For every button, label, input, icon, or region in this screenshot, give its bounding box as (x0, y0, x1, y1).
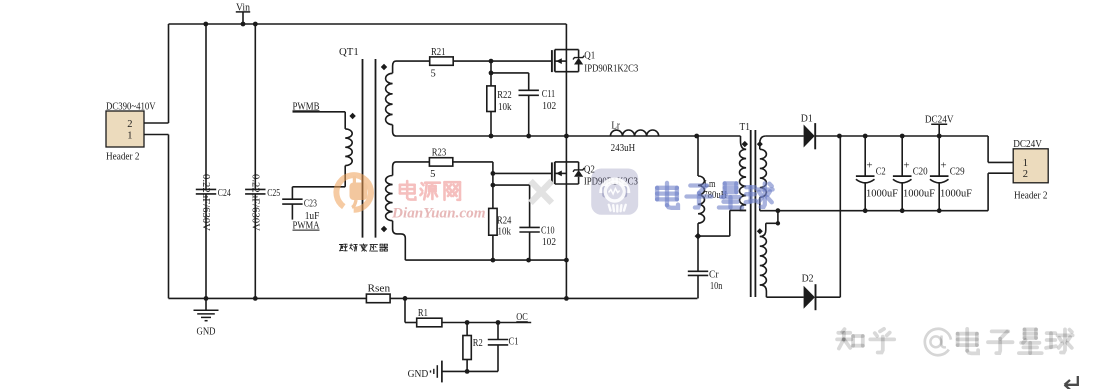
svg-text:R24: R24 (497, 215, 512, 226)
svg-text:0.22uF/630V: 0.22uF/630V (200, 174, 211, 232)
svg-text:C11: C11 (542, 89, 556, 100)
svg-text:5: 5 (431, 69, 436, 80)
svg-text:+: + (903, 159, 909, 171)
svg-text:QT1: QT1 (339, 47, 359, 58)
svg-text:R2: R2 (473, 338, 483, 349)
svg-text:C23: C23 (304, 199, 317, 210)
svg-text:1: 1 (127, 131, 132, 142)
svg-text:Q1: Q1 (584, 51, 595, 62)
svg-text:T1: T1 (740, 122, 750, 133)
svg-text:10k: 10k (498, 102, 512, 113)
svg-text:GND: GND (408, 369, 429, 380)
svg-text:DC390~410V: DC390~410V (106, 101, 156, 112)
svg-text:OC: OC (516, 312, 528, 323)
svg-text:R21: R21 (431, 47, 446, 58)
svg-text:D1: D1 (801, 114, 813, 125)
svg-text:Cr: Cr (709, 269, 719, 280)
svg-text:PWMB: PWMB (293, 101, 320, 112)
svg-text:2: 2 (127, 119, 132, 130)
svg-text:Header 2: Header 2 (1014, 190, 1048, 201)
svg-text:Lr: Lr (611, 121, 620, 132)
svg-text:DC24V: DC24V (1013, 139, 1042, 150)
svg-text:R23: R23 (432, 147, 447, 158)
svg-text:0.22uF/630V: 0.22uF/630V (250, 174, 261, 232)
svg-text:1: 1 (1023, 158, 1028, 169)
svg-text:Rsen: Rsen (368, 283, 391, 294)
svg-text:1000uF: 1000uF (940, 189, 972, 200)
svg-text:10k: 10k (498, 227, 512, 238)
svg-text:R22: R22 (497, 90, 512, 101)
svg-text:2: 2 (1023, 169, 1028, 180)
svg-text:+: + (940, 159, 946, 171)
svg-text:C2: C2 (876, 166, 886, 177)
svg-text:243uH: 243uH (611, 143, 636, 154)
svg-text:Header 2: Header 2 (106, 152, 140, 163)
svg-text:PWMA: PWMA (293, 221, 320, 232)
svg-text:D2: D2 (802, 273, 814, 284)
svg-text:GND: GND (197, 327, 216, 338)
svg-text:1000uF: 1000uF (866, 189, 898, 200)
svg-text:5: 5 (430, 169, 435, 180)
svg-text:C20: C20 (913, 166, 928, 177)
svg-text:1000uF: 1000uF (903, 189, 935, 200)
svg-text:+: + (866, 159, 872, 171)
svg-text:DianYuan.com: DianYuan.com (391, 205, 486, 222)
svg-text:IPD90R1K2C3: IPD90R1K2C3 (584, 63, 638, 74)
svg-text:C24: C24 (218, 188, 232, 199)
svg-text:C1: C1 (509, 336, 519, 347)
svg-text:C25: C25 (267, 188, 280, 199)
svg-text:C29: C29 (950, 166, 965, 177)
svg-text:102: 102 (542, 237, 556, 248)
svg-text:10n: 10n (710, 281, 723, 292)
svg-text:R1: R1 (418, 308, 428, 319)
svg-text:102: 102 (542, 101, 556, 112)
svg-text:C10: C10 (541, 225, 555, 236)
